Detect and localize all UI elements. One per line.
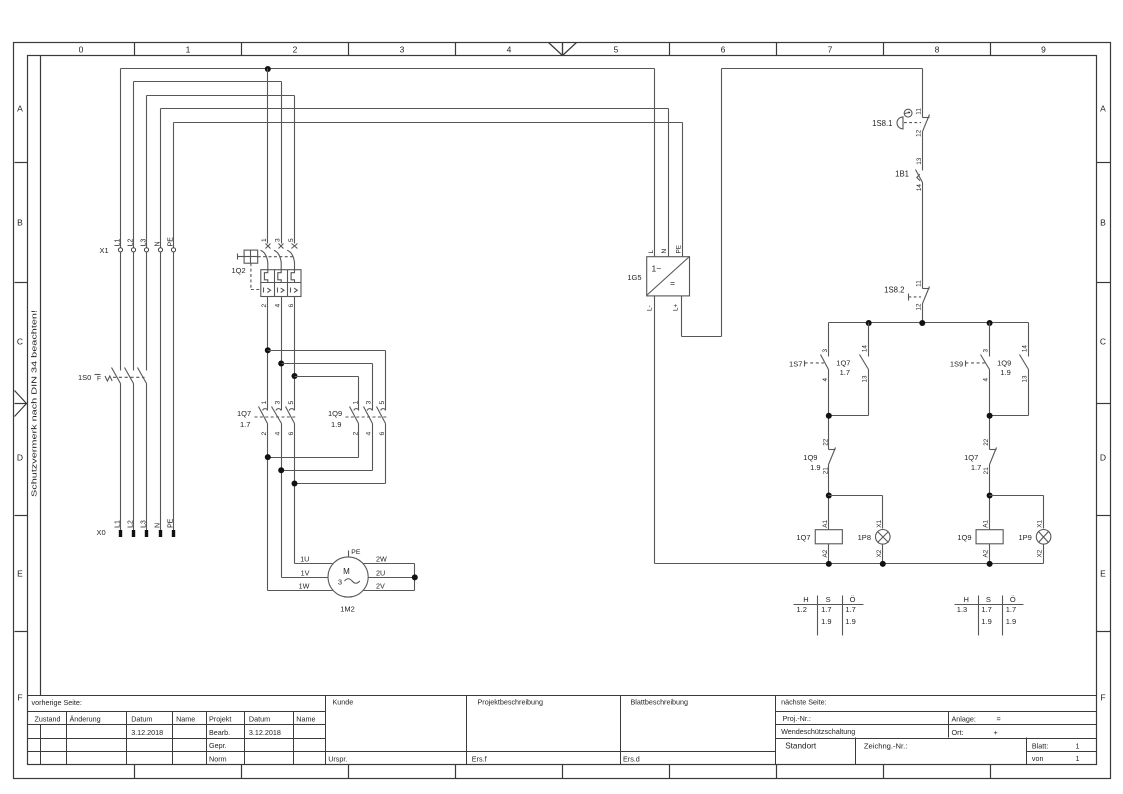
- svg-text:A2: A2: [983, 549, 990, 557]
- terminal strip X0: [97, 528, 176, 537]
- contactor 1Q7 main contacts: [255, 407, 298, 424]
- wire N rail: [161, 109, 669, 250]
- wire L2 rail: [134, 82, 282, 250]
- 1Q9 aux pin labels 14/13: [1021, 345, 1028, 383]
- svg-text:1: 1: [261, 401, 268, 405]
- lamp 1P9: [1018, 530, 1050, 564]
- svg-text:1.7: 1.7: [971, 463, 981, 472]
- svg-text:1.9: 1.9: [845, 617, 855, 626]
- emergency stop 1S8.1: [872, 109, 929, 170]
- wire lamp branch left: [829, 496, 883, 529]
- svg-text:3: 3: [400, 44, 405, 54]
- 1Q9 NC designator and cross-ref 1.9: [803, 453, 820, 472]
- svg-text:nächste Seite:: nächste Seite:: [781, 698, 827, 707]
- wire N drop: [160, 252, 162, 531]
- svg-text:X0: X0: [97, 528, 106, 537]
- svg-text:8: 8: [935, 44, 940, 54]
- svg-text:1S7: 1S7: [789, 360, 802, 369]
- svg-text:N: N: [155, 241, 162, 246]
- wire 1Q7 pole3 out: [294, 424, 296, 564]
- svg-text:1.3: 1.3: [957, 605, 967, 614]
- svg-text:B: B: [1100, 218, 1106, 228]
- svg-text:13: 13: [1021, 375, 1028, 383]
- junction L1/1Q2: [265, 66, 271, 72]
- svg-text:Urspr.: Urspr.: [328, 755, 347, 764]
- svg-text:+: +: [994, 728, 998, 737]
- 1M2 terminal labels 1U 1V 1W 2W 2U 2V: [299, 555, 387, 591]
- wire L2 drop: [133, 252, 135, 371]
- svg-text:4: 4: [275, 432, 282, 436]
- svg-text:=: =: [997, 715, 1001, 724]
- svg-text:PE: PE: [351, 549, 361, 556]
- svg-text:Ö: Ö: [850, 595, 856, 604]
- svg-text:N: N: [155, 523, 162, 528]
- svg-text:M: M: [343, 567, 350, 576]
- wire 1Q7 pole2 out: [281, 424, 283, 578]
- 1S7 pin labels 3/4: [822, 349, 829, 382]
- svg-text:Norm: Norm: [209, 755, 227, 764]
- control rail: [829, 322, 1029, 324]
- svg-text:14: 14: [916, 184, 923, 192]
- svg-text:5: 5: [288, 238, 295, 242]
- svg-text:A: A: [1100, 104, 1106, 114]
- svg-text:1.9: 1.9: [810, 463, 820, 472]
- svg-text:12: 12: [916, 303, 923, 311]
- svg-text:4: 4: [275, 304, 282, 308]
- svg-text:1.7: 1.7: [845, 605, 855, 614]
- 1Q7 NC designator and cross-ref 1.7: [964, 453, 981, 472]
- 1Q9 designator and cross-ref 1.9: [328, 409, 342, 429]
- svg-text:1P9: 1P9: [1018, 533, 1031, 542]
- junction L3 branch: [292, 373, 298, 379]
- wire merge right: [990, 415, 1029, 417]
- svg-text:Zustand: Zustand: [35, 715, 61, 724]
- pushbutton 1S7: [789, 323, 828, 450]
- svg-text:vorherige Seite:: vorherige Seite:: [32, 698, 82, 707]
- junction rail 1S8.2: [919, 320, 925, 326]
- wire L- to bottom rail: [655, 296, 1044, 564]
- svg-text:4: 4: [366, 432, 373, 436]
- svg-text:Ö: Ö: [1010, 595, 1016, 604]
- svg-text:X1: X1: [1037, 520, 1044, 528]
- svg-text:1U: 1U: [300, 555, 309, 564]
- svg-text:21: 21: [983, 467, 990, 475]
- svg-text:S: S: [826, 595, 831, 604]
- svg-text:2V: 2V: [376, 582, 385, 591]
- coil 1Q7: [796, 530, 842, 564]
- svg-text:4: 4: [983, 378, 990, 382]
- svg-text:Datum: Datum: [131, 715, 152, 724]
- svg-text:1P8: 1P8: [858, 533, 871, 542]
- svg-text:X2: X2: [1037, 549, 1044, 557]
- svg-text:PE: PE: [675, 245, 682, 254]
- svg-text:1: 1: [186, 44, 191, 54]
- svg-text:PE: PE: [168, 518, 175, 528]
- svg-text:L2: L2: [128, 238, 135, 246]
- svg-text:L: L: [648, 250, 655, 254]
- wire 1Q7 pole1 out: [267, 424, 269, 591]
- svg-text:5: 5: [614, 44, 619, 54]
- svg-text:Name: Name: [176, 715, 195, 724]
- contact table 1Q9: [955, 595, 1024, 636]
- svg-text:Datum: Datum: [249, 715, 270, 724]
- X0 wire labels L1 L2 L3 N PE: [115, 518, 175, 528]
- svg-text:1Q9: 1Q9: [997, 359, 1011, 368]
- contactor 1Q9 main contacts: [346, 407, 389, 424]
- 1Q7 pin labels 1-6: [261, 401, 295, 436]
- svg-text:Blatt:: Blatt:: [1032, 742, 1048, 751]
- 1M2 designator: [340, 605, 355, 614]
- 1Q9 NC pin labels 22/21: [822, 438, 829, 474]
- X1 wire labels L1 L2 L3 N PE: [115, 237, 175, 247]
- 1Q2 pin labels 1-6: [261, 238, 295, 308]
- svg-text:1Q7: 1Q7: [796, 533, 810, 542]
- svg-text:F: F: [1100, 693, 1105, 703]
- svg-text:Name: Name: [296, 715, 315, 724]
- title block: [28, 696, 1097, 765]
- svg-text:1~: 1~: [652, 264, 662, 274]
- terminal strip X1: [100, 246, 176, 255]
- svg-text:D: D: [17, 453, 23, 463]
- junction bottom 1P8: [880, 561, 886, 567]
- wire L3 rail: [147, 96, 295, 250]
- junction L1 branch: [265, 347, 271, 353]
- switch 1S8.2: [884, 286, 929, 323]
- motor 1M2: [268, 549, 418, 597]
- wire 1Q9 pole5 return: [295, 424, 386, 484]
- svg-text:3: 3: [275, 238, 282, 242]
- svg-text:3: 3: [822, 349, 829, 353]
- svg-text:2U: 2U: [376, 568, 385, 577]
- svg-text:3: 3: [983, 349, 990, 353]
- svg-text:X1: X1: [876, 520, 883, 528]
- svg-text:1S9: 1S9: [950, 360, 963, 369]
- svg-text:E: E: [17, 569, 23, 579]
- svg-text:L1: L1: [115, 238, 122, 246]
- wire PE rail: [174, 123, 683, 250]
- junction rail 1Q7aux: [866, 320, 872, 326]
- svg-text:1.7: 1.7: [821, 605, 831, 614]
- svg-text:1.9: 1.9: [981, 617, 991, 626]
- svg-text:1.9: 1.9: [1006, 617, 1016, 626]
- svg-text:1Q7: 1Q7: [836, 359, 850, 368]
- svg-text:1: 1: [1076, 742, 1080, 751]
- svg-text:14: 14: [1021, 345, 1028, 353]
- svg-text:Bearb.: Bearb.: [209, 728, 230, 737]
- svg-text:1W: 1W: [299, 582, 310, 591]
- svg-text:11: 11: [916, 280, 923, 287]
- wire control drop: [922, 69, 924, 118]
- wire branch to 1Q9 pole3: [282, 364, 373, 411]
- svg-text:N: N: [661, 249, 668, 254]
- svg-text:11: 11: [916, 108, 923, 115]
- svg-text:Projekt: Projekt: [209, 715, 231, 724]
- svg-text:1.7: 1.7: [840, 368, 850, 377]
- svg-text:L3: L3: [141, 238, 148, 246]
- svg-text:3: 3: [275, 401, 282, 405]
- svg-text:1Q9: 1Q9: [957, 533, 971, 542]
- svg-text:6: 6: [288, 432, 295, 436]
- 1S8.2 pin labels 11/12: [916, 280, 923, 311]
- svg-text:A2: A2: [822, 549, 829, 557]
- svg-text:F: F: [97, 376, 101, 383]
- svg-text:9: 9: [1041, 44, 1046, 54]
- contact table 1Q7: [794, 595, 864, 636]
- svg-text:L-: L-: [647, 305, 654, 311]
- svg-text:22: 22: [983, 438, 990, 446]
- junction lamp left: [826, 493, 832, 499]
- svg-text:X1: X1: [100, 246, 109, 255]
- svg-text:5: 5: [379, 401, 386, 405]
- svg-text:1V: 1V: [301, 568, 310, 577]
- NC contact 1Q7 21-22: [990, 448, 997, 530]
- svg-text:A: A: [17, 104, 23, 114]
- svg-text:=: =: [670, 278, 675, 288]
- svg-text:6: 6: [288, 304, 295, 308]
- note Schutzvermerk: [32, 310, 39, 497]
- junction L2 branch: [278, 361, 284, 367]
- svg-text:L3: L3: [141, 520, 148, 528]
- svg-text:Gepr.: Gepr.: [209, 741, 227, 750]
- wire merge left: [829, 415, 869, 417]
- svg-text:L2: L2: [128, 520, 135, 528]
- wire branch to 1Q9 pole5: [268, 351, 386, 411]
- 1Q7 NC pin labels 22/21: [983, 438, 990, 474]
- svg-text:L1: L1: [115, 520, 122, 528]
- 1P9 pin labels X1/X2: [1037, 520, 1044, 558]
- svg-text:2W: 2W: [376, 555, 387, 564]
- svg-text:1S8.2: 1S8.2: [884, 286, 904, 295]
- svg-text:4: 4: [507, 44, 512, 54]
- position switch 1B1: [895, 170, 922, 289]
- svg-text:1B1: 1B1: [895, 170, 909, 179]
- svg-text:Wendeschützschaltung: Wendeschützschaltung: [781, 727, 855, 736]
- svg-text:22: 22: [822, 438, 829, 446]
- 1B1 pin labels 13/14: [916, 157, 923, 191]
- svg-text:von: von: [1032, 754, 1044, 763]
- wire 1Q9 pole3 return: [282, 424, 373, 471]
- 1Q7 designator and cross-ref 1.7: [237, 409, 251, 429]
- lamp 1P8: [858, 530, 890, 564]
- svg-text:1.7: 1.7: [981, 605, 991, 614]
- svg-text:L+: L+: [673, 303, 680, 311]
- svg-text:1S8.1: 1S8.1: [872, 119, 892, 128]
- svg-text:13: 13: [862, 375, 869, 383]
- svg-text:Zeichng.-Nr.:: Zeichng.-Nr.:: [864, 742, 907, 751]
- svg-text:A1: A1: [822, 520, 829, 528]
- coil 1Q9: [957, 530, 1003, 564]
- svg-text:3.12.2018: 3.12.2018: [249, 728, 281, 737]
- 1Q7 coil pin labels A1/A2: [822, 520, 829, 558]
- svg-text:7: 7: [828, 44, 833, 54]
- svg-text:Änderung: Änderung: [70, 715, 101, 724]
- svg-text:14: 14: [862, 345, 869, 353]
- power supply 1G5: [627, 69, 689, 296]
- svg-text:3: 3: [366, 401, 373, 405]
- svg-text:13: 13: [916, 157, 923, 165]
- junction rail 1S9: [987, 320, 993, 326]
- 1Q9 aux designator and cross-ref 1.9: [997, 359, 1011, 378]
- svg-text:0: 0: [79, 44, 84, 54]
- svg-text:1G5: 1G5: [627, 273, 641, 282]
- wire L1 drop: [120, 252, 122, 371]
- svg-text:Standort: Standort: [785, 742, 817, 751]
- junction merge right: [987, 413, 993, 419]
- wire lamp branch right: [990, 496, 1044, 529]
- junction lamp right: [987, 493, 993, 499]
- svg-text:4: 4: [822, 378, 829, 382]
- NC contact 1Q9 21-22: [829, 448, 836, 530]
- 1G5 pin labels L N PE L- L+: [647, 245, 683, 311]
- wire L1 rail: [121, 69, 655, 250]
- svg-text:1.9: 1.9: [331, 420, 341, 429]
- junction V merge: [278, 467, 284, 473]
- svg-text:Ers.d: Ers.d: [623, 755, 640, 764]
- svg-text:C: C: [17, 337, 23, 347]
- svg-text:1Q7: 1Q7: [964, 453, 978, 462]
- svg-text:Proj.-Nr.:: Proj.-Nr.:: [783, 714, 811, 723]
- junction W merge: [292, 481, 298, 487]
- pushbutton 1S9: [950, 323, 990, 450]
- svg-text:5: 5: [288, 401, 295, 405]
- svg-text:1.2: 1.2: [797, 605, 807, 614]
- svg-text:Blattbeschreibung: Blattbeschreibung: [631, 698, 689, 707]
- svg-text:1.7: 1.7: [240, 420, 250, 429]
- svg-text:3: 3: [338, 578, 342, 587]
- svg-text:Schutzvermerk nach DIN 34 beac: Schutzvermerk nach DIN 34 beachten!: [32, 310, 39, 497]
- svg-text:6: 6: [721, 44, 726, 54]
- svg-text:F: F: [17, 693, 22, 703]
- svg-text:H: H: [964, 595, 969, 604]
- svg-text:12: 12: [916, 129, 923, 137]
- svg-text:1Q9: 1Q9: [803, 453, 817, 462]
- svg-text:A1: A1: [983, 520, 990, 528]
- svg-text:1Q2: 1Q2: [232, 266, 246, 275]
- svg-text:1: 1: [261, 238, 268, 242]
- 1S9 pin labels 3/4: [983, 349, 990, 382]
- svg-text:Kunde: Kunde: [333, 698, 354, 707]
- svg-text:1.9: 1.9: [1000, 368, 1010, 377]
- svg-text:3.12.2018: 3.12.2018: [131, 728, 163, 737]
- svg-text:PE: PE: [168, 237, 175, 247]
- svg-text:D: D: [1100, 453, 1106, 463]
- 1S8.1 pin labels 11/12: [916, 108, 923, 137]
- svg-text:1M2: 1M2: [340, 605, 355, 614]
- 1Q9 pin labels 1-6: [352, 401, 386, 436]
- svg-text:E: E: [1100, 569, 1106, 579]
- svg-text:S: S: [986, 595, 991, 604]
- svg-text:1: 1: [1076, 754, 1080, 763]
- junction bottom 1Q9: [987, 561, 993, 567]
- svg-text:Ers.f: Ers.f: [472, 755, 487, 764]
- svg-text:B: B: [17, 218, 23, 228]
- svg-text:2: 2: [261, 304, 268, 308]
- svg-text:1.7: 1.7: [1006, 605, 1016, 614]
- svg-text:1Q7: 1Q7: [237, 409, 251, 418]
- svg-text:Anlage:: Anlage:: [952, 715, 976, 724]
- svg-text:C: C: [1100, 337, 1106, 347]
- circuit breaker 1Q2: [232, 69, 302, 411]
- wire PE drop: [173, 252, 175, 531]
- wire 1Q9 pole1 return: [268, 424, 359, 458]
- wire L3 drop: [146, 252, 148, 371]
- svg-text:2: 2: [293, 44, 298, 54]
- switch 1S0: [78, 368, 147, 531]
- svg-text:1S0: 1S0: [78, 373, 91, 382]
- aux contact 1Q7 13-14: [860, 323, 869, 416]
- wire L+ to control rail: [682, 69, 923, 337]
- 1Q7 aux pin labels 14/13: [862, 345, 869, 383]
- svg-text:1Q9: 1Q9: [328, 409, 342, 418]
- wire branch to 1Q9 pole1: [295, 377, 359, 411]
- svg-text:21: 21: [822, 467, 829, 475]
- junction bottom 1Q7: [826, 561, 832, 567]
- svg-text:1.9: 1.9: [821, 617, 831, 626]
- 1P8 pin labels X1/X2: [876, 520, 883, 558]
- junction merge left: [826, 413, 832, 419]
- 1Q7 aux designator and cross-ref 1.7: [836, 359, 850, 378]
- svg-text:Ort:: Ort:: [952, 728, 964, 737]
- svg-text:X2: X2: [876, 549, 883, 557]
- 1Q9 coil pin labels A1/A2: [983, 520, 990, 558]
- svg-text:H: H: [803, 595, 808, 604]
- aux contact 1Q9 13-14: [1020, 323, 1029, 416]
- svg-text:1: 1: [352, 401, 359, 405]
- svg-text:Projektbeschreibung: Projektbeschreibung: [478, 698, 544, 707]
- junction U merge: [265, 454, 271, 460]
